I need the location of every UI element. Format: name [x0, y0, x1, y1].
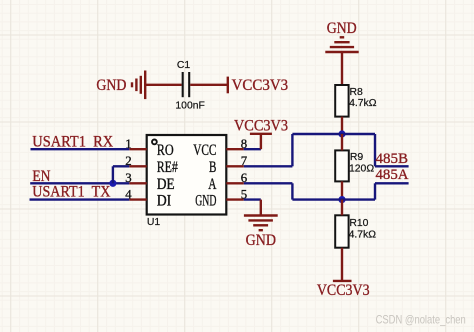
svg-text:R9: R9 [350, 152, 364, 163]
power port VCC3V3 (bottom) [317, 281, 370, 299]
svg-text:100nF: 100nF [175, 101, 204, 112]
power ground GND (U1 pin 5) [244, 200, 278, 250]
wire [341, 200, 343, 216]
wire USART1 RX [31, 148, 130, 150]
pin 1 indicator dot [152, 140, 157, 145]
IC U1 body [147, 135, 227, 215]
wire USART1 TX [30, 198, 130, 200]
wire [374, 183, 376, 199]
svg-text:A: A [208, 176, 217, 193]
svg-text:CSDN @nolate_chen: CSDN @nolate_chen [376, 313, 466, 327]
resistor R8 [335, 85, 348, 117]
pin 8 wire stub [226, 148, 243, 150]
wire net 485A [375, 182, 409, 184]
svg-text:DI: DI [157, 192, 172, 209]
svg-text:VCC3V3: VCC3V3 [234, 118, 288, 135]
wire [113, 165, 129, 167]
pin 7 wire stub [226, 165, 243, 167]
svg-text:VCC3V3: VCC3V3 [232, 77, 289, 94]
power ground symbol (left) [132, 71, 145, 100]
power ground GND (top right) [325, 20, 358, 52]
wire [190, 84, 228, 86]
svg-text:GND: GND [246, 232, 276, 249]
wire [244, 198, 261, 200]
wire [341, 181, 343, 199]
svg-text:RE#: RE# [157, 159, 178, 176]
svg-text:4.7kΩ: 4.7kΩ [349, 98, 377, 109]
wire [145, 84, 182, 86]
wire [341, 134, 343, 150]
pin 2 wire stub [129, 165, 146, 167]
svg-text:GND: GND [327, 20, 357, 37]
wire [341, 52, 343, 86]
svg-text:485B: 485B [376, 151, 409, 167]
pin 5 wire stub [226, 198, 243, 200]
wire [244, 148, 261, 150]
svg-text:GND: GND [96, 77, 126, 94]
svg-text:6: 6 [241, 171, 248, 185]
junction (R9/R10/485A node) [338, 196, 345, 203]
svg-text:DE: DE [157, 176, 175, 193]
wire [244, 182, 293, 184]
wire net 485B [375, 165, 409, 167]
pin 6 wire stub [226, 182, 243, 184]
resistor R10 [335, 215, 348, 247]
wire [112, 166, 114, 183]
power port VCC3V3 (U1 pin 8) [234, 118, 288, 150]
svg-text:U1: U1 [147, 217, 161, 228]
wire [291, 183, 293, 199]
wire EN [30, 182, 129, 184]
svg-text:7: 7 [241, 154, 248, 168]
junction (EN to RE#/DE) [109, 180, 116, 187]
capacitor C1 [183, 72, 190, 97]
svg-text:B: B [209, 159, 216, 176]
svg-text:R10: R10 [349, 218, 368, 229]
svg-text:C1: C1 [177, 60, 191, 71]
wire [374, 134, 376, 166]
svg-text:USART1 TX: USART1 TX [32, 184, 111, 201]
pin 1 wire stub [129, 148, 146, 150]
junction (R8/R9/485B node) [338, 130, 345, 137]
svg-text:VCC3V3: VCC3V3 [317, 282, 370, 299]
power port VCC3V3 (left) [228, 77, 288, 94]
wire [341, 248, 343, 281]
svg-text:GND: GND [195, 192, 216, 209]
svg-text:R8: R8 [350, 87, 364, 98]
wire [244, 165, 293, 167]
svg-text:RO: RO [157, 142, 174, 159]
svg-text:4.7kΩ: 4.7kΩ [349, 229, 377, 240]
wire [291, 134, 293, 166]
resistor R9 [335, 150, 349, 181]
wire [292, 198, 375, 200]
svg-text:120Ω: 120Ω [349, 163, 374, 174]
wire [341, 117, 343, 134]
pin 4 wire stub [129, 198, 146, 200]
svg-text:VCC: VCC [193, 142, 216, 159]
pin 3 wire stub [129, 182, 146, 184]
svg-text:485A: 485A [376, 167, 409, 183]
wire [292, 133, 375, 135]
